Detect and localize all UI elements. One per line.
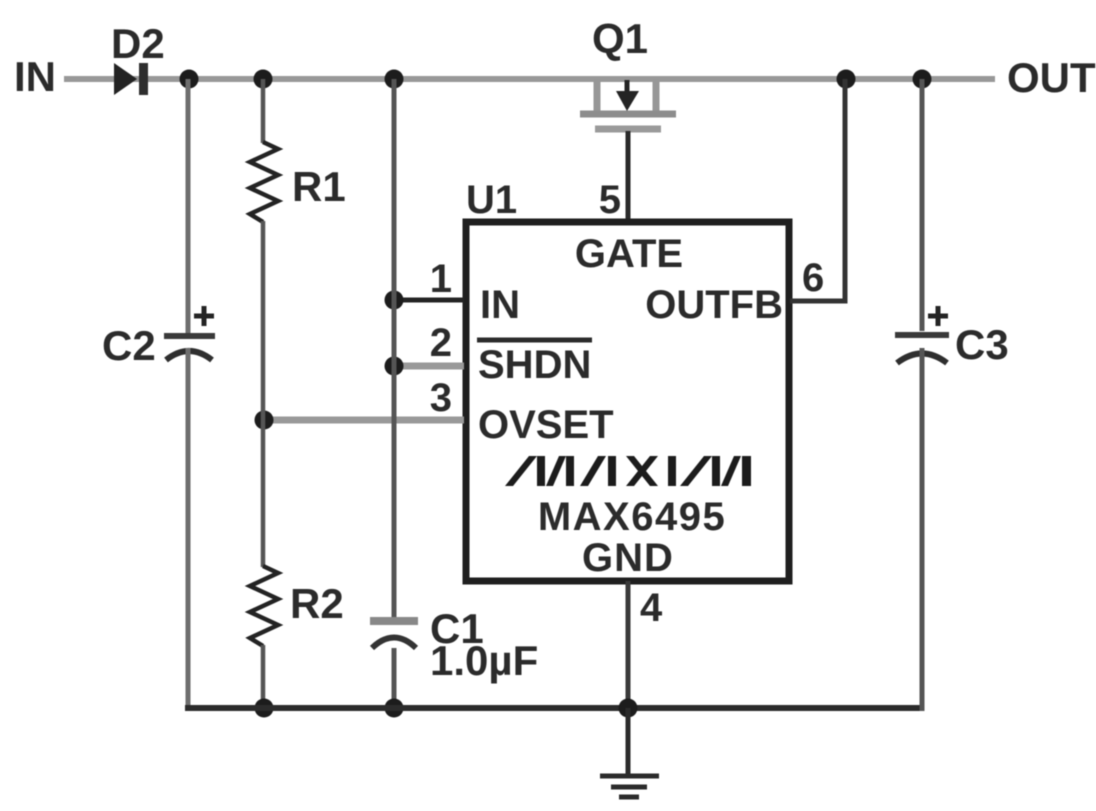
- node junction dot (IC IN branch, top): [385, 70, 404, 89]
- node junction dot (C3 branch, top): [913, 70, 932, 89]
- wire R2 to rail: [261, 645, 266, 708]
- wire R1 to R2: [261, 221, 266, 567]
- svg-text:C2: C2: [102, 322, 156, 369]
- svg-text:OUT: OUT: [1007, 54, 1096, 101]
- svg-text:IN: IN: [14, 53, 56, 100]
- svg-text:C3: C3: [955, 321, 1009, 368]
- node junction dot GND/rail: [619, 699, 638, 718]
- ground: [600, 708, 659, 797]
- label SHDN (pin 2 name) with overline: [477, 340, 592, 387]
- wire R branch upper: [261, 79, 266, 143]
- wire C1 riser upper: [392, 79, 397, 617]
- resistor R1: [250, 142, 278, 222]
- transistor Q1: [580, 79, 676, 129]
- svg-text:MAX6495: MAX6495: [538, 495, 726, 539]
- wire pin 6 (OUTFB): [790, 79, 845, 301]
- capacitor C2: [164, 306, 215, 360]
- svg-text:1.0µF: 1.0µF: [430, 637, 538, 684]
- wire bottom rail: [185, 705, 924, 711]
- wire C2 riser upper: [186, 79, 191, 333]
- wire C3 riser upper: [920, 79, 925, 331]
- wire pin 1: [394, 298, 464, 303]
- logo MAXIM: [505, 456, 751, 486]
- svg-text:4: 4: [640, 586, 663, 630]
- svg-text:GND: GND: [582, 536, 674, 580]
- svg-text:IN: IN: [480, 283, 520, 327]
- wire gate (pin 5): [626, 131, 631, 221]
- node junction dot (OUTFB branch, top): [837, 70, 856, 89]
- svg-text:GATE: GATE: [575, 232, 683, 276]
- capacitor C3: [895, 306, 949, 363]
- wire C1 to rail: [392, 648, 397, 708]
- node junction dot OVSET/R divider: [255, 411, 274, 430]
- svg-text:R1: R1: [292, 163, 346, 210]
- svg-text:1: 1: [430, 257, 452, 301]
- wire top rail: [64, 76, 995, 82]
- node junction dot R2/rail: [255, 699, 274, 718]
- svg-text:OUTFB: OUTFB: [645, 283, 783, 327]
- resistor R2: [250, 566, 278, 646]
- wire pin 2 (SHDN): [394, 363, 464, 370]
- node junction dot C1/rail: [385, 699, 404, 718]
- node junction dot pin2: [385, 357, 404, 376]
- wire C3 to rail: [920, 348, 925, 711]
- wire pin 4 (GND): [626, 581, 631, 708]
- svg-text:6: 6: [802, 256, 824, 300]
- diode D2: [114, 63, 148, 95]
- svg-text:SHDN: SHDN: [478, 343, 591, 387]
- node junction dot (R1 branch, top): [254, 70, 273, 89]
- svg-text:D2: D2: [111, 20, 165, 67]
- svg-text:2: 2: [430, 321, 452, 365]
- wire C2 riser lower: [186, 348, 191, 708]
- svg-text:3: 3: [430, 376, 452, 420]
- svg-text:OVSET: OVSET: [478, 403, 614, 447]
- op-amp U1 (IC MAX6495 box): [466, 222, 789, 581]
- svg-text:R2: R2: [290, 580, 344, 627]
- node junction dot (C2 branch, top): [180, 70, 199, 89]
- svg-text:5: 5: [599, 178, 621, 222]
- wire pin 3 (OVSET): [264, 417, 464, 424]
- svg-text:Q1: Q1: [592, 15, 648, 62]
- node junction dot pin1: [385, 291, 404, 310]
- svg-text:U1: U1: [466, 178, 517, 222]
- capacitor C1: [370, 621, 418, 648]
